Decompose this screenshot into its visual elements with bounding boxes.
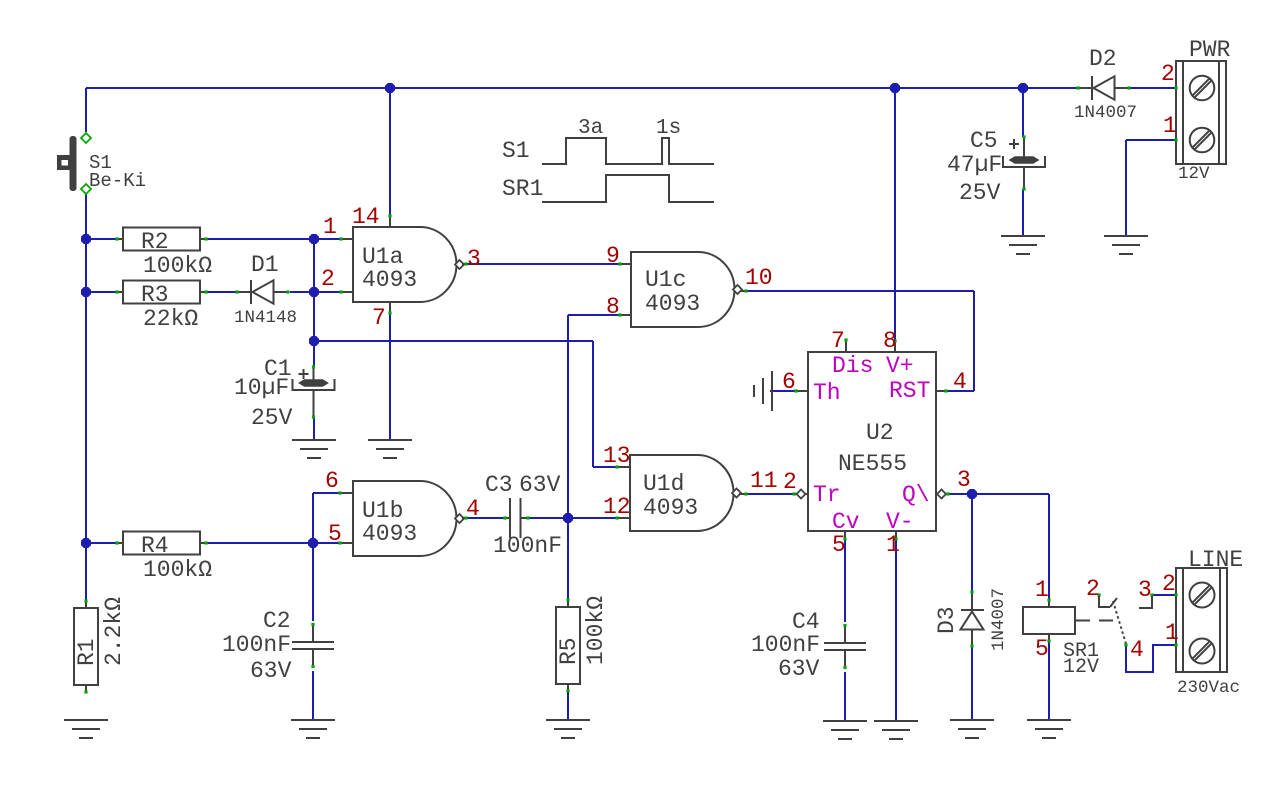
pin number U2 pin 4 <box>953 369 967 395</box>
junction C1 node <box>309 336 319 346</box>
capacitor C3 <box>485 472 562 559</box>
svg-text:1: 1 <box>323 214 337 240</box>
wire C3 to U1d pin12 <box>528 517 616 519</box>
svg-text:D3: D3 <box>934 606 960 634</box>
pin number PWR pin 2 <box>1161 61 1175 87</box>
wire left column (S1 to R1) <box>85 88 87 601</box>
pin number U1d pin 13 <box>603 443 631 469</box>
pin number SR1 pin 4 <box>1130 637 1144 663</box>
svg-text:Be-Ki: Be-Ki <box>89 170 146 192</box>
U2 pin name V- <box>886 509 914 535</box>
svg-text:C5: C5 <box>970 128 998 154</box>
relay SR1 coil <box>1023 598 1099 679</box>
pin number SR1 pin 1 <box>1035 577 1049 603</box>
svg-text:R2: R2 <box>141 229 169 255</box>
svg-text:4093: 4093 <box>643 495 698 521</box>
ground C2 <box>291 720 335 738</box>
svg-text:22kΩ: 22kΩ <box>143 306 198 332</box>
svg-text:Q\: Q\ <box>902 482 930 508</box>
svg-text:Tr: Tr <box>813 482 841 508</box>
pin number U1d pin 12 <box>603 494 631 520</box>
pin number U1d pin 11 <box>750 468 778 494</box>
wire C1 node to U1d pin13 <box>314 341 616 467</box>
nand gate U1a <box>339 214 467 314</box>
pin number U1a pin 3 <box>467 246 481 272</box>
svg-text:U1c: U1c <box>645 267 686 293</box>
svg-text:4: 4 <box>953 369 967 395</box>
resistor R3 <box>115 281 207 333</box>
svg-text:R3: R3 <box>141 282 169 308</box>
junction R4/pin5 <box>308 538 318 548</box>
diode D2 <box>1074 46 1137 123</box>
diode D3 <box>934 588 1009 651</box>
svg-text:5: 5 <box>1035 636 1049 662</box>
svg-text:3: 3 <box>957 467 971 493</box>
svg-text:63V: 63V <box>250 658 292 684</box>
svg-text:D2: D2 <box>1089 46 1117 72</box>
svg-text:1: 1 <box>1035 577 1049 603</box>
svg-text:2: 2 <box>1086 576 1100 602</box>
pin number U1c pin 8 <box>606 294 620 320</box>
capacitor C4 <box>751 609 866 682</box>
wire relay pin3 to LINE 2 <box>1152 594 1176 596</box>
svg-text:NE555: NE555 <box>838 451 907 477</box>
pin number SR1 pin 2 <box>1086 576 1100 602</box>
pin number U2 pin 3 <box>957 467 971 493</box>
svg-text:2: 2 <box>1161 61 1175 87</box>
junction rail/V+ <box>890 83 900 93</box>
wire U1c out to RST <box>746 291 974 391</box>
pin number SR1 pin 5 <box>1035 636 1049 662</box>
U2 pin name RST <box>889 378 930 404</box>
junction left/R3 <box>81 287 91 297</box>
svg-text:47µF: 47µF <box>947 152 1002 178</box>
U2 pin name Dis <box>832 353 873 379</box>
svg-text:63V: 63V <box>519 472 561 498</box>
ground SR1 <box>1027 720 1071 738</box>
pin number U2 pin 5 <box>832 532 846 558</box>
svg-text:D1: D1 <box>251 252 279 278</box>
ground C5 <box>1001 236 1045 254</box>
svg-text:3a: 3a <box>578 117 603 140</box>
svg-text:25V: 25V <box>959 180 1001 206</box>
wire U1a pin7 to ground <box>389 313 391 440</box>
svg-text:13: 13 <box>603 443 631 469</box>
pin number U2 pin 2 <box>783 469 797 495</box>
svg-text:63V: 63V <box>778 656 820 682</box>
svg-text:1s: 1s <box>656 117 681 140</box>
ground PWR <box>1104 236 1148 254</box>
U2 pin name Cv <box>832 509 860 535</box>
svg-text:1: 1 <box>1163 113 1177 139</box>
svg-text:U2: U2 <box>866 420 894 446</box>
svg-text:R4: R4 <box>141 533 169 559</box>
wire R2 row <box>86 238 340 240</box>
junction left/R2 <box>81 234 91 244</box>
svg-text:8: 8 <box>606 294 620 320</box>
pin number U1a pin 1 <box>323 214 337 240</box>
pin number U1c pin 9 <box>606 243 620 269</box>
svg-text:Th: Th <box>813 380 841 406</box>
pin number U1a pin 2 <box>321 266 335 292</box>
svg-text:2: 2 <box>321 266 335 292</box>
ground U1a pin7 <box>368 440 412 458</box>
svg-text:C2: C2 <box>263 608 291 634</box>
pin number U1c pin 10 <box>745 265 773 291</box>
wire U1c pin8 feeder <box>568 315 620 518</box>
wire C2 column <box>312 543 314 720</box>
pin number U2 pin 8 <box>883 328 897 354</box>
junction rail/pin14 <box>385 83 395 93</box>
svg-text:100kΩ: 100kΩ <box>143 253 212 279</box>
pin number U1a pin 14 <box>352 204 380 230</box>
svg-text:5: 5 <box>832 532 846 558</box>
pin number U1b pin 6 <box>325 468 339 494</box>
pin number U1b pin 5 <box>328 521 342 547</box>
U2 pin name Th <box>813 380 841 406</box>
svg-text:100kΩ: 100kΩ <box>143 557 212 583</box>
wire D3 column <box>971 494 973 720</box>
U2 pin name Tr <box>813 482 841 508</box>
ground C4 <box>823 721 867 739</box>
junction R2/pin1 <box>309 234 319 244</box>
svg-text:3: 3 <box>1138 577 1152 603</box>
relay SR1 contact <box>1075 593 1154 646</box>
ground NE555 V- <box>874 721 918 739</box>
junction Q/D3 <box>967 489 977 499</box>
pin number LINE pin 1 <box>1165 620 1179 646</box>
pin number U2 pin 1 <box>886 532 900 558</box>
svg-text:6: 6 <box>325 468 339 494</box>
timing diagram SR1 trace <box>502 175 714 202</box>
svg-text:2: 2 <box>1162 571 1176 597</box>
resistor R1 <box>74 597 127 694</box>
svg-text:7: 7 <box>831 328 845 354</box>
wire SR1 pin5 to ground <box>1048 641 1050 720</box>
wire Th ground stub <box>770 390 795 392</box>
svg-text:4: 4 <box>1130 637 1144 663</box>
ground R5 <box>546 720 590 738</box>
svg-text:5: 5 <box>328 521 342 547</box>
wire U1b pin6 stub <box>313 493 339 543</box>
pin number LINE pin 2 <box>1162 571 1176 597</box>
terminal PWR <box>1174 37 1230 184</box>
svg-text:12V: 12V <box>1063 656 1099 679</box>
svg-text:SR1: SR1 <box>502 176 543 202</box>
wire node column x314 <box>313 239 315 440</box>
svg-text:230Vac: 230Vac <box>1177 678 1240 698</box>
svg-text:1: 1 <box>1165 620 1179 646</box>
pin number PWR pin 1 <box>1163 113 1177 139</box>
svg-text:3: 3 <box>467 246 481 272</box>
wire U1a pin14 to rail <box>389 88 391 216</box>
wire U1a out to U1c pin9 <box>466 263 620 265</box>
U2 pin name Q\ <box>902 482 930 508</box>
svg-text:6: 6 <box>782 369 796 395</box>
nand gate U1d <box>615 455 747 531</box>
svg-text:10µF: 10µF <box>234 375 289 401</box>
capacitor C2 <box>222 608 334 684</box>
svg-text:12V: 12V <box>1178 164 1210 184</box>
svg-text:Dis: Dis <box>832 353 873 379</box>
nand gate U1c <box>618 252 747 327</box>
svg-text:7: 7 <box>372 305 386 331</box>
svg-text:4093: 4093 <box>362 267 417 293</box>
terminal LINE <box>1174 547 1243 698</box>
svg-text:25V: 25V <box>251 405 293 431</box>
resistor R4 <box>115 532 212 584</box>
svg-text:R1: R1 <box>74 638 100 666</box>
pin number U1b pin 4 <box>466 496 480 522</box>
svg-text:U1d: U1d <box>643 471 684 497</box>
wire Q out to relay <box>948 494 1049 600</box>
ground D3 <box>950 720 994 738</box>
ground at NE555 Th <box>754 371 772 411</box>
U2 pin name V+ <box>886 353 914 379</box>
wire top +12V rail <box>86 87 1176 89</box>
wire R3/D1 row <box>86 291 340 293</box>
switch S1 <box>57 133 146 194</box>
svg-text:1: 1 <box>886 532 900 558</box>
svg-text:14: 14 <box>352 204 380 230</box>
wire R4 row <box>86 542 339 544</box>
svg-text:100nF: 100nF <box>493 533 562 559</box>
wire V- column <box>895 539 897 721</box>
wire C4 column <box>844 539 846 721</box>
nand gate U1b <box>338 481 467 556</box>
svg-text:2.2kΩ: 2.2kΩ <box>101 597 127 666</box>
svg-text:8: 8 <box>883 328 897 354</box>
svg-text:4093: 4093 <box>645 291 700 317</box>
svg-text:1N4007: 1N4007 <box>989 588 1009 651</box>
svg-text:2: 2 <box>783 469 797 495</box>
pin number U2 pin 6 <box>782 369 796 395</box>
resistor R5 <box>556 596 609 693</box>
svg-text:1N4007: 1N4007 <box>1074 103 1137 123</box>
pin number U2 pin 7 <box>831 328 845 354</box>
svg-text:V+: V+ <box>886 353 914 379</box>
wire U1b out to C3 <box>466 517 505 519</box>
timer U2 NE555 body <box>792 338 949 540</box>
wire NE555 V+ column <box>894 88 896 341</box>
capacitor C1 <box>234 356 335 431</box>
wire PWR pin1 to ground <box>1126 140 1176 236</box>
svg-text:R5: R5 <box>556 637 582 665</box>
svg-text:S1: S1 <box>502 138 530 164</box>
svg-text:4: 4 <box>466 496 480 522</box>
svg-text:100nF: 100nF <box>222 632 291 658</box>
svg-text:LINE: LINE <box>1188 547 1243 573</box>
svg-text:PWR: PWR <box>1189 37 1231 63</box>
diode D1 <box>234 252 297 328</box>
wire U1d out to Tr <box>746 493 797 495</box>
svg-text:1N4148: 1N4148 <box>234 308 297 328</box>
capacitor C5 <box>947 128 1045 206</box>
pin number SR1 pin 3 <box>1138 577 1152 603</box>
ground C1 <box>292 440 336 458</box>
junction rail/C5 <box>1018 83 1028 93</box>
svg-text:RST: RST <box>889 378 930 404</box>
svg-text:10: 10 <box>745 265 773 291</box>
resistor R2 <box>115 228 212 280</box>
timing diagram S1 trace <box>502 117 714 164</box>
wire relay pin4 to LINE 1 <box>1126 645 1176 672</box>
ground R1 <box>64 720 108 738</box>
svg-text:4093: 4093 <box>362 521 417 547</box>
junction D1/pin2 <box>309 287 319 297</box>
junction C3/R5 <box>563 513 573 523</box>
svg-text:11: 11 <box>750 468 778 494</box>
wire C5 column <box>1022 88 1024 236</box>
wire R5 column <box>567 518 569 720</box>
svg-text:12: 12 <box>603 494 631 520</box>
svg-text:100kΩ: 100kΩ <box>583 596 609 665</box>
junction left/R4 <box>81 538 91 548</box>
svg-text:9: 9 <box>606 243 620 269</box>
pin number U1a pin 7 <box>372 305 386 331</box>
svg-text:C3: C3 <box>485 472 513 498</box>
svg-text:100nF: 100nF <box>751 632 820 658</box>
